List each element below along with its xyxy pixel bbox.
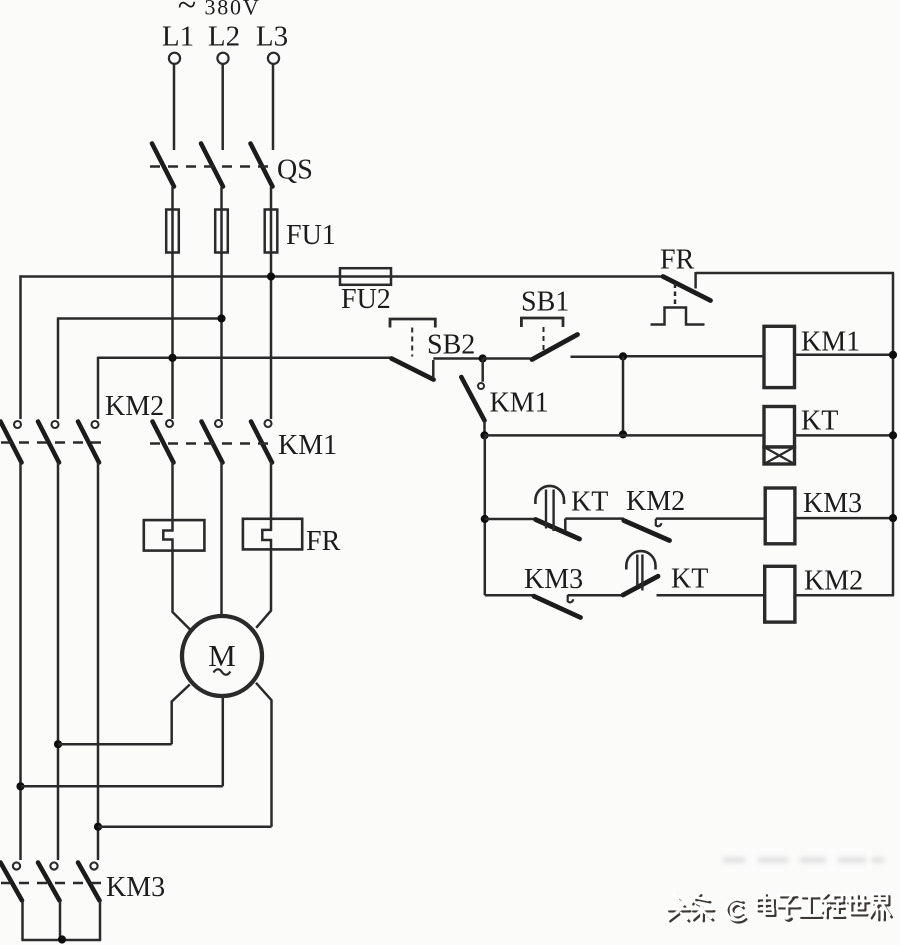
svg-text:M: M <box>208 638 236 673</box>
svg-text:KT: KT <box>571 487 608 518</box>
svg-text:FR: FR <box>306 526 341 557</box>
svg-text:L3: L3 <box>256 21 288 53</box>
svg-text:FR: FR <box>660 245 695 276</box>
svg-text:SB1: SB1 <box>521 287 569 318</box>
svg-text:FU2: FU2 <box>341 284 391 315</box>
svg-text:L1: L1 <box>162 21 194 53</box>
svg-text:KM3: KM3 <box>803 488 862 519</box>
svg-text:KM2: KM2 <box>105 391 164 422</box>
svg-text:KM1: KM1 <box>490 388 549 419</box>
svg-text:KT: KT <box>671 564 708 595</box>
svg-text:KM3: KM3 <box>106 872 165 903</box>
svg-text:KM1: KM1 <box>801 327 860 358</box>
svg-text:QS: QS <box>277 155 313 186</box>
svg-text:KM3: KM3 <box>524 564 583 595</box>
svg-text:SB2: SB2 <box>427 330 475 361</box>
svg-text:380V: 380V <box>204 0 260 20</box>
svg-text:L2: L2 <box>208 21 240 53</box>
svg-text:KM2: KM2 <box>804 566 863 597</box>
svg-text:KM2: KM2 <box>626 486 685 517</box>
svg-text:FU1: FU1 <box>286 220 336 251</box>
svg-text:KT: KT <box>801 406 838 437</box>
svg-text:KM1: KM1 <box>278 430 337 461</box>
